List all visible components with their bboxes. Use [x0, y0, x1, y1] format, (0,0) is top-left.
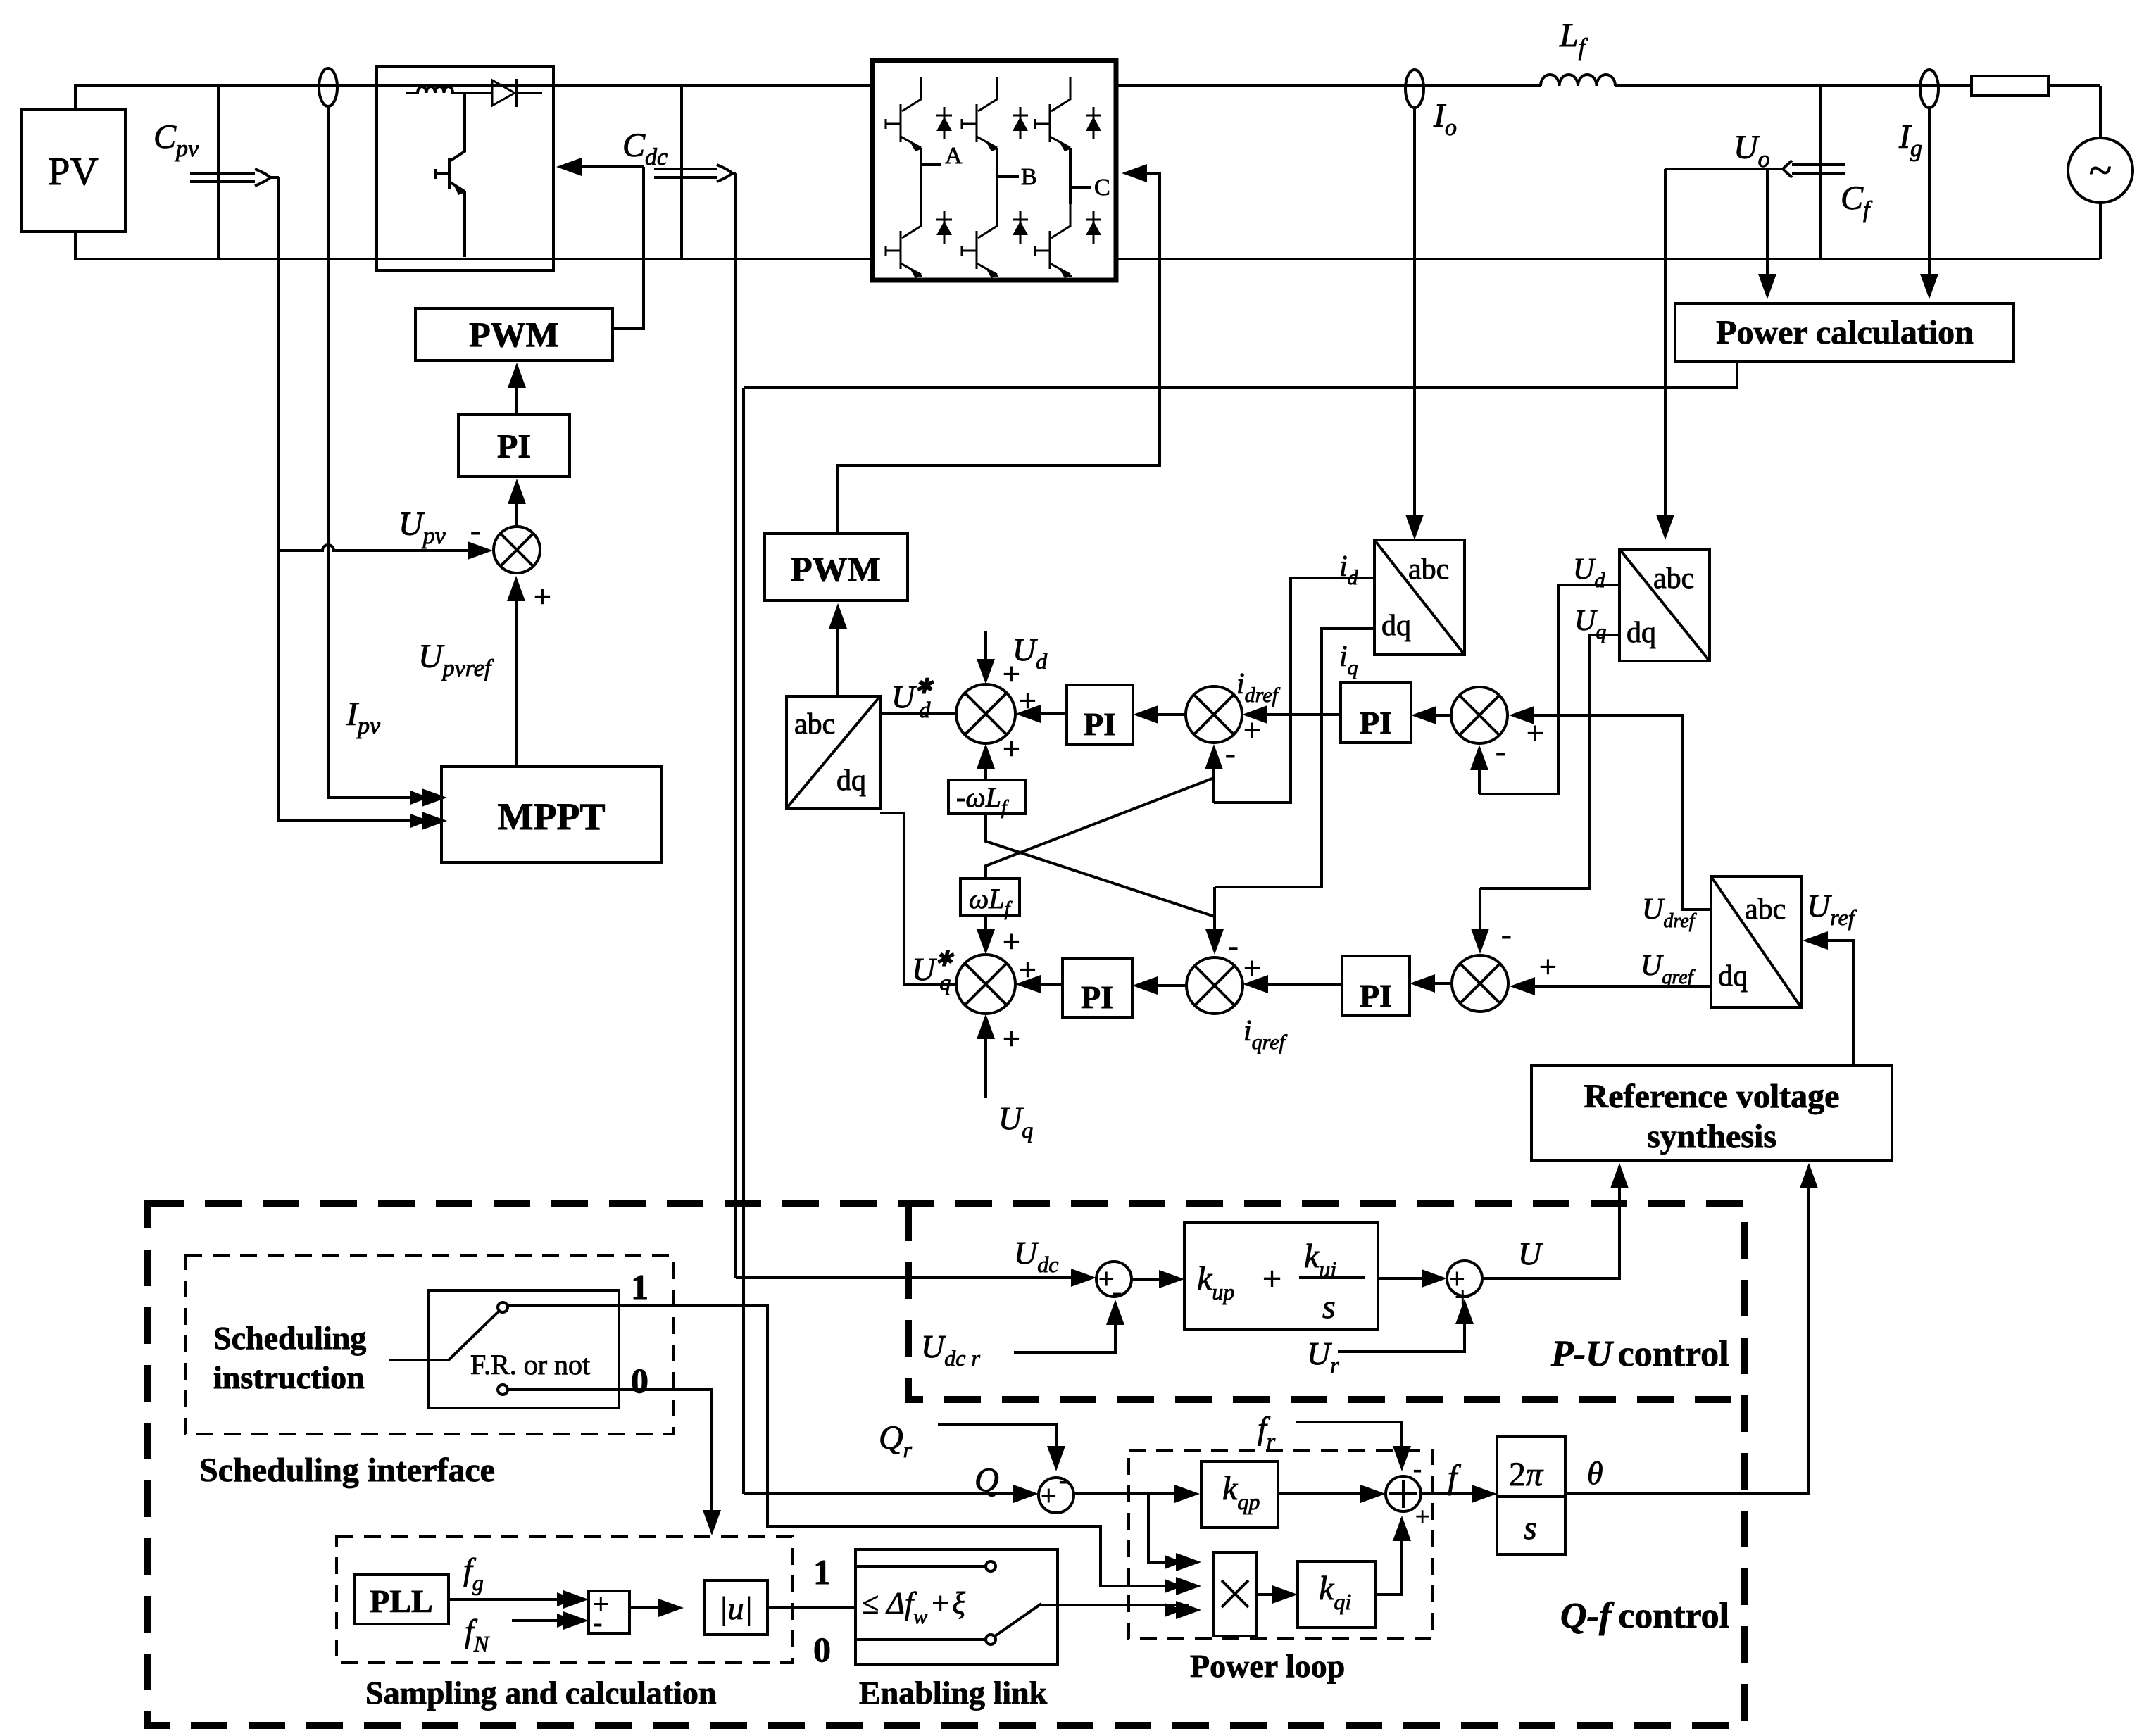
svg-text:Reference voltage: Reference voltage — [1584, 1078, 1840, 1115]
svg-text:Power loop: Power loop — [1190, 1648, 1345, 1684]
PI block 1 — [458, 363, 570, 477]
label Ipv — [346, 696, 381, 739]
label Q — [974, 1461, 999, 1499]
wire Ur input — [1338, 1299, 1474, 1352]
label id — [1339, 551, 1359, 589]
label 1 switch — [631, 1267, 648, 1307]
svg-text:P-Ucontrol: P-Ucontrol — [1550, 1334, 1729, 1374]
dashed box Sampling and calculation — [337, 1537, 792, 1663]
label fN — [465, 1613, 490, 1656]
label U — [1518, 1235, 1543, 1271]
label Ud* — [891, 675, 934, 722]
PI current q1 — [1015, 959, 1132, 1017]
inverter bridge — [872, 61, 1116, 280]
svg-text:0: 0 — [631, 1361, 648, 1400]
svg-text:-: - — [1496, 734, 1506, 769]
label 1 enabling — [813, 1552, 831, 1592]
svg-text:Scheduling interface: Scheduling interface — [199, 1452, 495, 1489]
integrator 2pi over s — [1421, 1436, 1565, 1554]
svg-text:MPPT: MPPT — [498, 795, 606, 838]
wire Udc input — [736, 1269, 1096, 1287]
label 0 switch — [631, 1361, 648, 1400]
PI current q2 — [1243, 956, 1452, 1016]
label Upv — [399, 505, 446, 549]
wire switch output 1 — [508, 1305, 1201, 1595]
dashed box P-U control — [908, 1204, 1745, 1400]
svg-text:PWM: PWM — [791, 549, 881, 589]
gain kqp — [1201, 1461, 1278, 1528]
wire Qr input — [938, 1424, 1065, 1471]
label Uq input — [977, 1014, 1033, 1143]
svg-text:PWM: PWM — [469, 315, 559, 354]
AC grid source — [2068, 86, 2133, 259]
svg-text:abc: abc — [1408, 553, 1449, 586]
wire theta output — [1565, 1163, 1818, 1494]
current sensor Ipv — [319, 68, 447, 807]
wire kqi to f junction — [1376, 1516, 1411, 1595]
capacitor Cf — [1821, 86, 1873, 259]
summing junction Udc — [1096, 1262, 1132, 1307]
gain kqi — [1256, 1561, 1376, 1628]
svg-text:-: - — [1113, 1276, 1122, 1307]
wire Uqref — [1510, 977, 1711, 995]
svg-text:2π: 2π — [1509, 1456, 1544, 1493]
transform dq to abc — [786, 603, 880, 808]
svg-text:-: - — [1228, 929, 1239, 963]
summing junction f — [1278, 1454, 1429, 1530]
svg-text:s: s — [1322, 1288, 1336, 1326]
svg-text:U: U — [1518, 1235, 1543, 1271]
PWM block 1 — [415, 308, 613, 360]
label theta — [1587, 1455, 1603, 1491]
wire bottom bus — [74, 258, 2100, 260]
svg-text:abc: abc — [1745, 893, 1786, 926]
summing junction iqref — [1132, 929, 1261, 1014]
svg-text:-: - — [1225, 736, 1236, 771]
svg-text:0: 0 — [813, 1630, 831, 1669]
svg-text:+: + — [1003, 924, 1020, 959]
wire fr input — [1296, 1422, 1411, 1471]
comparator plus minus — [449, 1588, 629, 1638]
summing junction Uq* — [880, 813, 1036, 1014]
wire top DC bus — [74, 84, 2100, 87]
MPPT block — [441, 767, 661, 862]
label idref — [1236, 668, 1281, 707]
wire Uq feedback — [1471, 635, 1619, 954]
label Ud out — [1573, 553, 1605, 592]
svg-text:PI: PI — [1081, 979, 1113, 1015]
wire Q error — [1074, 1485, 1201, 1571]
wire PWM2 to inverter — [838, 164, 1160, 534]
multiplier — [1214, 1552, 1256, 1636]
dashed box Scheduling interface — [185, 1256, 673, 1434]
wire Upv into junction — [279, 541, 493, 560]
svg-text:PI: PI — [497, 428, 531, 465]
label Enabling link — [859, 1675, 1048, 1711]
svg-text:instruction: instruction — [213, 1359, 365, 1395]
PV source block — [21, 86, 125, 259]
label f — [1448, 1459, 1461, 1496]
label iqref — [1243, 1015, 1288, 1054]
svg-text:+: + — [1003, 657, 1020, 691]
svg-text:+: + — [1415, 1502, 1429, 1530]
label Udc — [1014, 1235, 1058, 1277]
svg-text:θ: θ — [1587, 1455, 1603, 1491]
svg-text:dq: dq — [1627, 617, 1656, 649]
wire iq feedback — [1205, 629, 1374, 955]
dashed box Power loop — [1129, 1450, 1433, 1639]
svg-text:-: - — [1059, 1466, 1067, 1494]
label fg — [463, 1552, 484, 1595]
PI current d1 — [1015, 685, 1133, 744]
svg-text:-: - — [470, 513, 481, 548]
svg-text:abc: abc — [1653, 562, 1694, 595]
svg-text:PI: PI — [1360, 978, 1392, 1014]
transform dq to abc reference — [1711, 876, 1801, 1007]
svg-text:dq: dq — [836, 765, 866, 797]
label P-U control — [1550, 1334, 1729, 1374]
capacitor Cpv — [153, 86, 270, 259]
label Sampling and calculation — [365, 1675, 716, 1711]
gain kup+kui/s — [1132, 1223, 1378, 1330]
svg-text:+: + — [1041, 1480, 1057, 1511]
label Uq out — [1574, 605, 1606, 643]
transform abc to dq currents — [1374, 540, 1465, 655]
Power calculation block — [1675, 303, 2014, 361]
svg-text:Scheduling: Scheduling — [213, 1320, 366, 1356]
svg-text:PV: PV — [48, 150, 99, 194]
wire Q output of power calculation — [744, 361, 1737, 1494]
svg-text:PI: PI — [1360, 705, 1392, 741]
label Udcr — [921, 1328, 980, 1371]
svg-text:-: - — [1501, 917, 1512, 952]
switch F.R. or not — [389, 1290, 619, 1408]
svg-text:Enabling link: Enabling link — [859, 1675, 1048, 1711]
summing junction Upv — [470, 479, 551, 614]
summing junction Ud* — [880, 684, 1015, 743]
svg-text:~: ~ — [2089, 147, 2112, 194]
label Upvref — [418, 638, 494, 681]
current sensor Io — [1405, 70, 1457, 540]
svg-text:dq: dq — [1381, 610, 1411, 642]
capacitor Cdc — [622, 86, 732, 259]
abs block u — [629, 1580, 767, 1635]
gain -wLf — [948, 731, 1025, 819]
PWM block 2 — [765, 534, 908, 600]
label Uq* — [912, 948, 954, 995]
svg-text:1: 1 — [631, 1267, 648, 1307]
switch enabling link — [855, 1549, 1058, 1664]
svg-text:1: 1 — [813, 1552, 831, 1592]
svg-text:Power calculation: Power calculation — [1716, 314, 1974, 351]
wire Upvref — [507, 576, 525, 767]
label fr — [1258, 1410, 1276, 1454]
svg-text:C: C — [1094, 175, 1110, 201]
label 0 enabling — [813, 1630, 831, 1669]
wire enabling output — [1041, 1601, 1201, 1619]
summing junction idref — [1133, 686, 1261, 771]
resistor grid impedance — [1972, 76, 2048, 96]
dashed box Q-f control outer — [147, 1203, 1745, 1725]
boost converter — [377, 66, 553, 270]
label Scheduling instruction — [213, 1320, 366, 1395]
label Uref — [1807, 888, 1857, 930]
svg-text:|u|: |u| — [719, 1590, 753, 1626]
inductor Lf — [1541, 17, 1615, 86]
label Uqref — [1641, 950, 1696, 988]
summing junction Q — [744, 1466, 1074, 1513]
svg-text:+: + — [1539, 950, 1557, 984]
wire switch output 0 — [508, 1390, 721, 1535]
wire u out — [767, 1606, 855, 1609]
label Udref — [1642, 893, 1697, 932]
summing junction U — [1378, 1261, 1482, 1313]
svg-text:-: - — [1413, 1454, 1422, 1483]
summing junction q error — [1452, 917, 1557, 1012]
svg-text:+: + — [1003, 1021, 1020, 1056]
wire Udcr input — [1014, 1300, 1124, 1352]
wire iq to -wLf — [986, 814, 1215, 917]
label iq — [1339, 641, 1358, 679]
transform abc to dq voltages — [1619, 549, 1710, 661]
svg-text:Q-fcontrol: Q-fcontrol — [1560, 1596, 1729, 1636]
svg-text:+: + — [1262, 1260, 1281, 1297]
PI current d2 — [1242, 683, 1451, 743]
svg-text:-: - — [593, 1606, 602, 1638]
wire PWM1 gate drive — [556, 158, 644, 329]
svg-text:A: A — [945, 143, 963, 169]
label Ud input — [977, 631, 1048, 718]
svg-text:abc: abc — [794, 708, 835, 741]
wire Ud feedback — [1470, 585, 1619, 794]
wire id to wLf — [986, 778, 1214, 879]
node Uo sense — [1656, 129, 1845, 540]
wire Udc sense — [732, 173, 736, 1278]
Reference voltage synthesis block — [1531, 1065, 1892, 1160]
svg-text:PLL: PLL — [370, 1583, 432, 1619]
wire U output — [1482, 1163, 1629, 1278]
wire Udref — [1509, 706, 1711, 910]
label Ur — [1307, 1335, 1339, 1378]
svg-text:B: B — [1021, 164, 1037, 190]
svg-text:+: + — [534, 579, 551, 614]
gain wLf — [960, 879, 1020, 959]
PLL block — [354, 1575, 449, 1624]
label Power loop — [1190, 1648, 1345, 1684]
svg-text:+: + — [1003, 731, 1020, 766]
label Q-f control — [1560, 1596, 1729, 1636]
svg-text:PI: PI — [1084, 706, 1116, 742]
wire Uref — [1803, 931, 1853, 1065]
svg-text:s: s — [1524, 1509, 1537, 1547]
node Upv sense wire — [270, 177, 447, 830]
label Qr — [879, 1419, 913, 1462]
current sensor Ig — [1898, 70, 1938, 299]
wire id feedback — [1205, 578, 1374, 803]
svg-text:synthesis: synthesis — [1647, 1118, 1776, 1155]
svg-text:dq: dq — [1718, 960, 1748, 993]
svg-text:F.R. or not: F.R. or not — [470, 1349, 590, 1380]
svg-text:Sampling and calculation: Sampling and calculation — [365, 1675, 716, 1711]
label Scheduling interface — [199, 1452, 495, 1489]
summing junction d error — [1451, 687, 1544, 769]
